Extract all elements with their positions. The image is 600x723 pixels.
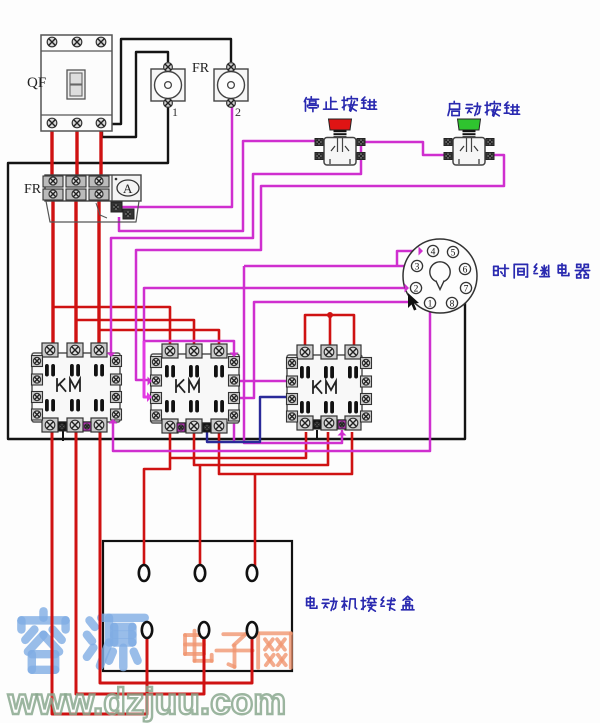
svg-text:1: 1 <box>428 299 433 309</box>
wire U FR-KM1 <box>51 196 54 347</box>
motor terminal box <box>103 541 292 671</box>
label QF <box>27 75 46 91</box>
label FR fuses <box>192 61 210 76</box>
wire KM3 coil tap <box>316 430 318 440</box>
wire timer pin2 to KM2 <box>144 288 407 397</box>
wire W KM1-KM2 <box>100 330 219 347</box>
wire V FR-KM1 <box>74 196 77 347</box>
svg-text:1: 1 <box>172 105 178 119</box>
wire timer pin1 to KM1 coil <box>113 312 430 451</box>
wire KM1-motor U2 <box>52 432 147 714</box>
watermark dianziwang <box>185 631 291 668</box>
wire timer pin8 to KM2 aux <box>239 302 446 398</box>
wire KM1-motor V2 <box>76 432 204 694</box>
svg-text:QF: QF <box>27 75 46 91</box>
fuse FU2 <box>214 63 248 108</box>
wire stop to start series <box>364 142 446 155</box>
svg-text:5: 5 <box>451 248 456 258</box>
svg-text:A: A <box>123 181 133 196</box>
wire KM2-KM3 T1 <box>144 432 306 566</box>
FR NC terminal 1 <box>111 202 122 212</box>
wire U KM1-KM2 <box>54 307 170 347</box>
fuse FU1 <box>151 63 185 108</box>
contactor KM2 <box>151 344 240 433</box>
label stop button <box>304 96 376 111</box>
wire KM2 to KM3 interlock <box>207 397 287 442</box>
watermark rongyuan <box>21 611 144 670</box>
label start button <box>448 101 520 116</box>
wire W FR-KM1 <box>97 196 100 347</box>
label fuse 1 <box>172 105 178 119</box>
wire start out to KM2 coil <box>136 155 504 380</box>
svg-text:FR: FR <box>192 61 210 76</box>
wire FU1 to timer pin7 loop <box>8 104 465 439</box>
svg-text:7: 7 <box>464 284 469 294</box>
wire arrowheads <box>107 247 424 436</box>
svg-text:www.dzjuu.com: www.dzjuu.com <box>7 681 286 722</box>
label fuse 2 <box>235 105 241 119</box>
motor terminal box terminals <box>139 565 257 638</box>
wire KM2-KM3 T2 <box>194 432 328 566</box>
svg-text:2: 2 <box>235 105 241 119</box>
svg-text:6: 6 <box>463 265 468 275</box>
svg-text:3: 3 <box>415 262 420 272</box>
wire KM1-motor W2 <box>100 432 252 683</box>
wire KM2-KM3 aux jumper <box>240 380 287 383</box>
label motor terminal box <box>307 596 414 611</box>
wire QF pole3 to fuse FU2 <box>103 39 231 124</box>
wire L3 QF-FR <box>99 126 102 177</box>
wire KM2-KM3 T3 <box>219 432 352 566</box>
watermark url <box>7 681 286 722</box>
start push button SB2 <box>444 119 494 165</box>
cursor arrow artifact <box>408 293 419 311</box>
svg-text:4: 4 <box>431 247 436 257</box>
circuit breaker QF <box>41 35 112 131</box>
time relay socket KT <box>403 239 477 313</box>
stop push button SB1 <box>315 119 365 165</box>
wire FU2 to FR-NC <box>122 104 232 207</box>
wire KM1 coil tap <box>62 430 64 441</box>
wire V KM1-KM2 <box>77 320 194 347</box>
wire stop out to KM1 aux <box>111 146 361 353</box>
thermal relay FR <box>43 175 141 222</box>
wire L1 QF-FR <box>50 126 53 177</box>
wire QF pole2 to fuse FU1 <box>102 52 168 137</box>
svg-text:8: 8 <box>450 299 455 309</box>
contactor KM3 <box>287 345 372 430</box>
wire L2 QF-FR <box>75 126 78 177</box>
label FR <box>24 182 42 197</box>
contactor KM1 <box>32 343 122 432</box>
svg-text:FR: FR <box>24 182 42 197</box>
FR NC terminal 2 <box>123 209 134 219</box>
label time relay <box>494 264 590 278</box>
svg-text:2: 2 <box>414 284 419 294</box>
wire FR-NC to stop button <box>119 141 315 231</box>
wire timer pin3 pin4 jumper <box>244 251 425 266</box>
wire pin3 to KM3 aux <box>234 266 342 443</box>
wire KM3 star bridge <box>305 312 354 347</box>
